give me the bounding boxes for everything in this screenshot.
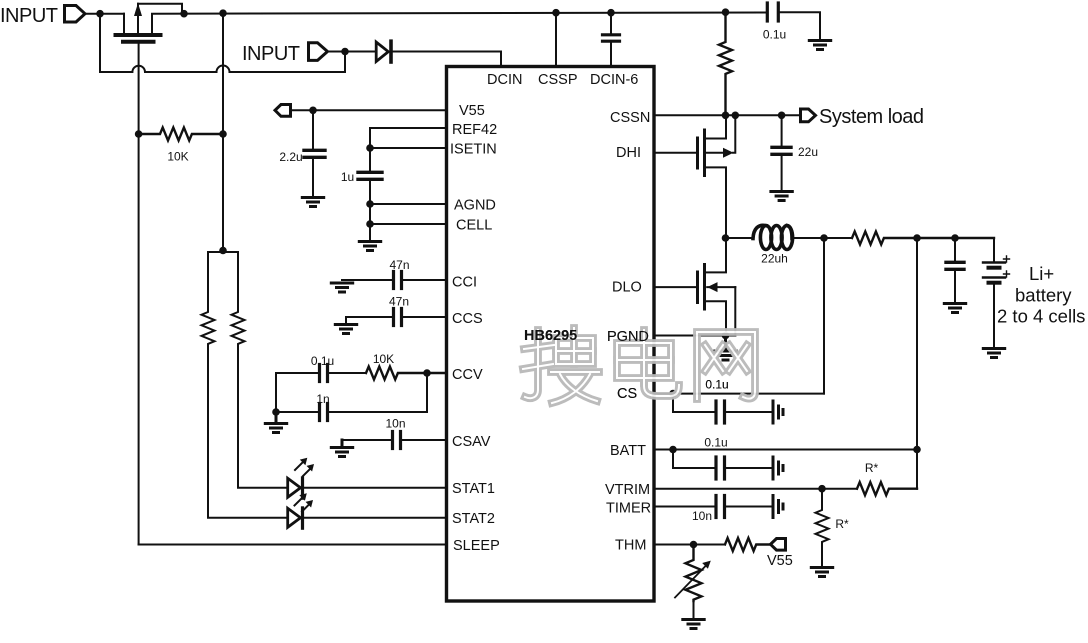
terminal V55 pointing left — [275, 105, 291, 117]
junction gate/10K at (139,134) — [135, 130, 143, 138]
svg-text:10K: 10K — [167, 150, 188, 164]
resistor vertical at x=725.5 top right — [719, 12, 732, 115]
wire PGND row — [654, 335, 735, 337]
junction at x=917 — [913, 234, 921, 242]
capacitor 2.2u — [304, 110, 325, 196]
wire to LED1 anode — [238, 487, 288, 489]
junction CELL — [366, 220, 374, 228]
wire TIMER row — [654, 506, 715, 508]
wire crossing with hops from (100,72) to (345,72) — [100, 66, 345, 73]
svg-text:V55: V55 — [767, 553, 793, 569]
junction AGND — [366, 200, 374, 208]
junction rail DCIN-6 — [607, 9, 615, 17]
wire SLEEP — [139, 544, 447, 546]
resistor 10K CCV — [366, 367, 447, 380]
junction at x=955 — [951, 234, 959, 242]
wire from rail junction down to crossing wire — [99, 14, 101, 72]
svg-text:0.1u: 0.1u — [704, 436, 727, 450]
terminal System load — [801, 109, 816, 122]
svg-text:0.1u: 0.1u — [311, 354, 334, 368]
svg-text:47n: 47n — [389, 258, 409, 272]
inductor L1 22uh — [753, 225, 793, 249]
svg-text:VTRIM: VTRIM — [605, 482, 650, 498]
capacitor 0.1u top right — [767, 3, 820, 39]
svg-text:PGND: PGND — [607, 329, 649, 345]
resistor 10K horizontal — [139, 128, 223, 141]
svg-text:TIMER: TIMER — [606, 501, 651, 517]
junction at x=824 — [820, 234, 828, 242]
svg-text:10n: 10n — [385, 417, 405, 431]
junction PGND — [722, 332, 730, 340]
wire BATT row — [654, 449, 917, 451]
wire LED1 to STAT1 — [304, 487, 446, 489]
wire up from crossing wire to INPUT2 node — [344, 50, 346, 72]
wire CSAV left — [342, 439, 391, 441]
ground under output cap — [944, 304, 965, 313]
ground top right — [809, 41, 830, 50]
wire CCS left — [346, 317, 392, 323]
svg-text:battery: battery — [1015, 285, 1072, 306]
ground under 1u — [359, 242, 380, 251]
junction CSSN x=735 — [732, 112, 740, 120]
wire THM row — [654, 544, 725, 546]
resistor THM series horizontal — [725, 538, 770, 551]
svg-text:10K: 10K — [373, 352, 394, 366]
capacitor 47n CCS — [394, 309, 447, 326]
svg-text:2 to 4 cells: 2 to 4 cells — [997, 306, 1085, 327]
rotated ground CS row — [773, 401, 783, 423]
svg-text:STAT2: STAT2 — [452, 511, 495, 527]
svg-text:1n: 1n — [316, 392, 329, 406]
svg-text:AGND: AGND — [454, 198, 496, 214]
junction VTRIM — [818, 485, 826, 493]
svg-text:R*: R* — [865, 461, 879, 475]
svg-text:DLO: DLO — [612, 280, 642, 296]
wire diode to DCIN pin — [392, 52, 501, 67]
capacitor 22u — [772, 115, 791, 190]
svg-text:2.2u: 2.2u — [279, 150, 302, 164]
svg-text:22uh: 22uh — [761, 252, 788, 266]
svg-text:DHI: DHI — [616, 145, 641, 161]
resistor R* vertical below VTRIM — [816, 489, 829, 566]
ground at PGND — [715, 336, 736, 361]
junction V55/2.2u — [309, 107, 317, 115]
watermark 搜电网 — [523, 328, 755, 403]
svg-text:22u: 22u — [798, 145, 818, 159]
wire CCI left — [342, 279, 392, 281]
svg-text:CSSP: CSSP — [538, 72, 578, 88]
ground at CCS — [335, 325, 356, 334]
wire vertical x=139 SLEEP line — [138, 134, 140, 545]
wire VTRIM row — [654, 488, 857, 490]
junction rail x=725 — [722, 8, 730, 16]
wire to LED2 anode — [208, 517, 288, 519]
rotated ground TIMER row — [773, 496, 783, 518]
resistor R* horizontal VTRIM — [857, 482, 917, 495]
wire CELL — [370, 223, 447, 225]
junction inductor left — [722, 234, 730, 242]
capacitor 10n TIMER to ground — [716, 496, 771, 518]
resistor right of pair vertical x=238 — [232, 252, 245, 487]
wire J2 to diode — [328, 51, 377, 53]
battery BT1 Li+ — [983, 256, 1010, 347]
wire pair top connector — [208, 251, 238, 253]
wire V55 to IC — [291, 109, 447, 111]
wire CCV left vertical — [275, 373, 277, 412]
svg-text:10n: 10n — [692, 509, 712, 523]
ground under thermistor — [683, 620, 704, 629]
svg-text:SLEEP: SLEEP — [453, 538, 500, 554]
ground at CCI — [331, 283, 352, 292]
resistor output sense horizontal — [852, 232, 994, 245]
wire BATT branch down — [673, 450, 715, 469]
svg-text:DCIN: DCIN — [487, 72, 522, 88]
svg-text:CELL: CELL — [456, 218, 492, 234]
wire CSSN row — [654, 114, 800, 116]
junction CSSN x=725 — [722, 112, 730, 120]
junction 1n node — [272, 408, 280, 416]
input terminal J2 INPUT — [309, 43, 328, 61]
svg-text:V55: V55 — [459, 103, 485, 119]
junction resistor pair top — [219, 247, 227, 255]
junction CCV — [423, 369, 431, 377]
svg-text:STAT1: STAT1 — [452, 481, 495, 497]
transistor Q3 low-side NMOS at DLO — [654, 238, 735, 336]
svg-text:CSAV: CSAV — [452, 434, 491, 450]
svg-text:CCI: CCI — [452, 275, 477, 291]
svg-text:0.1u: 0.1u — [705, 378, 728, 392]
junction ISETIN — [366, 144, 374, 152]
thermistor RT1 — [675, 545, 711, 619]
junction THM — [690, 541, 698, 549]
junction on rail at x=223 — [219, 9, 227, 17]
svg-text:47n: 47n — [389, 295, 409, 309]
input terminal J1 INPUT — [65, 6, 86, 23]
capacitor 1u — [358, 172, 382, 240]
resistor left of pair vertical x=208 — [202, 252, 215, 517]
svg-text:System load: System load — [819, 106, 924, 128]
wire vertical x=917 down to VTRIM row — [916, 238, 918, 489]
svg-text:BATT: BATT — [610, 443, 646, 459]
ground under 22u — [771, 192, 792, 201]
transistor Q1 p-channel pass MOSFET — [116, 3, 183, 42]
gate lead of Q1 down x=138.6 — [138, 42, 140, 134]
capacitor 0.1u BATT to ground — [716, 457, 771, 479]
svg-text:HB6295: HB6295 — [524, 328, 577, 344]
ground under battery — [983, 349, 1004, 358]
junction BATT branch — [669, 446, 677, 454]
capacitor 10n CSAV — [393, 432, 447, 449]
wire vertical x=223 from rail to resistor row — [222, 13, 224, 134]
wire CCV lead to cap — [276, 372, 318, 374]
wire vertical x=824 down to CS — [823, 238, 825, 394]
capacitor output near battery — [946, 238, 964, 302]
wire to inductor — [726, 237, 753, 239]
wire to battery — [993, 238, 995, 261]
svg-text:CSSN: CSSN — [610, 110, 650, 126]
wire CS branch down — [673, 394, 715, 412]
wire top rail from Q1 drain to 0.1u cap — [152, 13, 766, 14]
rotated ground BATT row — [773, 457, 783, 479]
svg-text:1u: 1u — [341, 170, 354, 184]
ground under 2.2u — [302, 198, 323, 207]
capacitor at DCIN-6 top — [603, 13, 620, 67]
svg-text:CCV: CCV — [452, 367, 483, 383]
junction CS branch — [669, 390, 677, 398]
svg-text:ISETIN: ISETIN — [450, 142, 497, 158]
svg-text:DCIN-6: DCIN-6 — [590, 72, 638, 88]
wire AGND — [370, 203, 447, 205]
svg-text:INPUT: INPUT — [242, 43, 300, 65]
svg-text:R*: R* — [835, 517, 849, 531]
capacitor 1n — [320, 373, 428, 421]
svg-text:CS: CS — [617, 386, 637, 402]
diode D1 — [376, 41, 391, 62]
wire LED2 to STAT2 — [304, 517, 446, 519]
svg-text:CCS: CCS — [452, 311, 483, 327]
junction CSSN x=782 — [778, 112, 786, 120]
junction 10K right at (223,134) — [219, 130, 227, 138]
junction on rail at x=184 (Q1 body/top bar) — [180, 10, 188, 18]
wire top rail left segment — [85, 13, 124, 15]
wire CS row — [654, 393, 824, 395]
wire ISETIN — [370, 147, 447, 149]
junction at (345,50) — [341, 48, 349, 56]
IC U1 HB6295 box — [447, 67, 655, 602]
wire x=223 from 10K down to pair — [222, 134, 224, 251]
wire CSSP from rail down to IC top — [555, 13, 557, 67]
junction rail CSSP — [552, 9, 560, 17]
capacitor 47n CCI — [394, 272, 447, 289]
svg-text:REF42: REF42 — [452, 122, 497, 138]
ground under R* — [811, 568, 832, 577]
wire REF42 bend — [370, 128, 447, 171]
capacitor 0.1u CCV — [320, 365, 367, 382]
wire inductor to resistor — [792, 237, 852, 239]
LED D3 STAT2 — [288, 493, 313, 528]
junction on rail at x=100 — [96, 10, 104, 18]
LED D2 STAT1 — [288, 458, 314, 499]
transistor Q2 high-side NMOS at DHI — [654, 115, 735, 238]
svg-text:INPUT: INPUT — [0, 5, 58, 27]
svg-text:0.1u: 0.1u — [763, 28, 786, 42]
wire 1n lead left — [276, 411, 318, 413]
terminal V55 right pointing left — [771, 539, 786, 551]
svg-text:THM: THM — [615, 538, 646, 554]
capacitor 0.1u CS to ground — [716, 401, 771, 423]
ground at CSAV — [331, 440, 352, 457]
ground under 1n node — [265, 412, 286, 433]
junction BATT x=917 — [913, 446, 921, 454]
svg-text:Li+: Li+ — [1029, 263, 1054, 284]
wire vertical x=223 continues through hop — [222, 66, 224, 78]
